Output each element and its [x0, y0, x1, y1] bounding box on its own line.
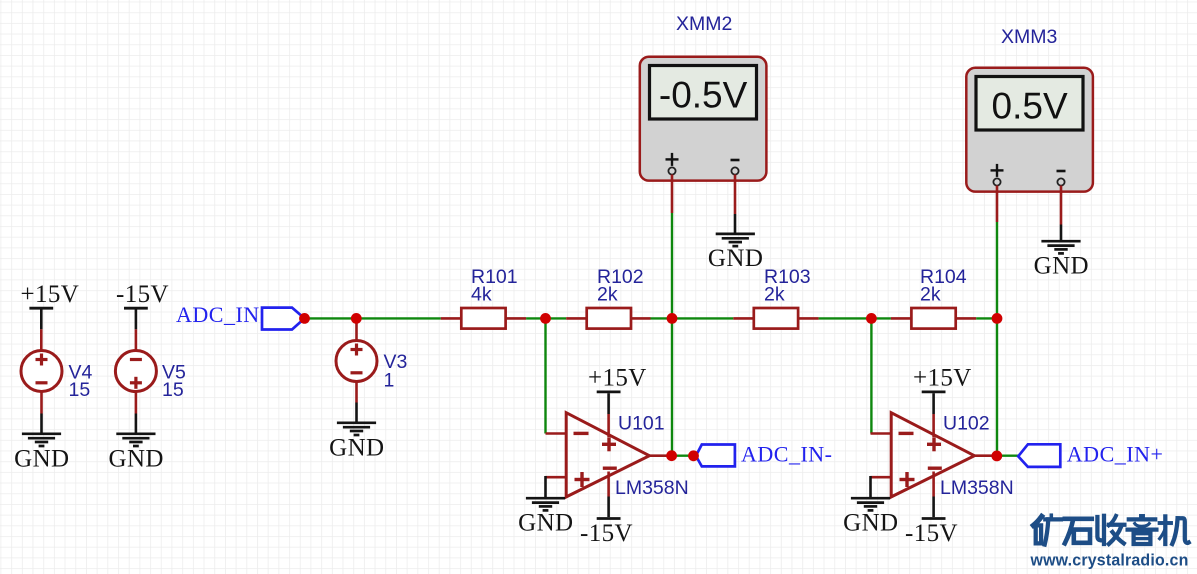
junction U102 output: [991, 451, 1002, 462]
svg-text:ADC_IN+: ADC_IN+: [1067, 442, 1164, 467]
svg-text:XMM2: XMM2: [676, 13, 732, 35]
svg-text:-15V: -15V: [580, 520, 633, 547]
junction node D: [992, 313, 1003, 324]
label R101 4k: [471, 266, 518, 306]
wire node C down to U102 inverting input: [870, 318, 872, 433]
svg-text:+15V: +15V: [21, 281, 80, 308]
resistor R102: [587, 308, 631, 329]
svg-text:GND: GND: [843, 510, 898, 537]
svg-text:-15V: -15V: [905, 520, 958, 547]
wire U102 inverting input stub: [871, 432, 892, 435]
svg-text:2k: 2k: [920, 284, 941, 306]
svg-text:15: 15: [69, 379, 91, 401]
wire R104 right lead: [956, 317, 977, 320]
svg-text:2k: 2k: [764, 284, 785, 306]
ground (XMM3): [1034, 241, 1089, 279]
net flag ADC_IN: [176, 302, 305, 330]
ground (U101): [518, 498, 573, 536]
wire node B up to XMM2 +: [671, 213, 673, 318]
svg-text:4k: 4k: [471, 284, 492, 306]
wire U101 non-inverting input to ground: [546, 476, 567, 498]
resistor R101: [461, 308, 505, 329]
junction node C: [866, 313, 877, 324]
svg-text:GND: GND: [329, 435, 384, 462]
wire U102 non-inverting input to ground: [871, 476, 892, 498]
wire U102 output to flag: [997, 455, 1018, 457]
junction ADC_IN- flag tip: [688, 450, 699, 461]
ground (V4): [14, 434, 69, 473]
svg-text:GND: GND: [14, 446, 69, 473]
wire R104 left lead: [891, 317, 912, 320]
wire U102 V+ pin: [932, 414, 935, 437]
resistor R104: [911, 308, 955, 329]
multimeter XMM2: [640, 57, 767, 181]
junction ADC_IN: [299, 313, 310, 324]
junction node A: [540, 313, 551, 324]
wire R101 to node A: [526, 317, 566, 319]
wire node D down to U102 output: [996, 318, 998, 455]
junction V3 node: [351, 313, 362, 324]
wire XMM3 + lead: [996, 186, 999, 223]
ground (V3): [329, 423, 384, 462]
svg-text:1: 1: [384, 370, 395, 392]
svg-text:XMM3: XMM3: [1001, 26, 1057, 48]
ground (V5): [109, 434, 164, 473]
watermark url www.crystalradio.cn: [1030, 551, 1189, 570]
wire XMM2 + lead: [671, 175, 674, 214]
wire R102 left lead: [566, 317, 587, 320]
label U102 LM358N: [940, 413, 1014, 500]
wire R101 right lead: [506, 317, 526, 320]
svg-text:GND: GND: [1034, 253, 1089, 280]
wire U101 output to flag: [672, 455, 694, 457]
svg-text:LM358N: LM358N: [615, 477, 689, 499]
watermark logo text: [1033, 515, 1188, 544]
power symbol -15V (U101): [580, 497, 633, 548]
op-amp U102: [891, 413, 974, 497]
op-amp U101: [566, 413, 649, 497]
svg-text:GND: GND: [109, 446, 164, 473]
junction U101 output: [666, 450, 677, 461]
wire V3 bottom lead: [355, 382, 358, 424]
power symbol +15V (V4): [21, 281, 80, 329]
voltage source V5: [115, 351, 156, 392]
svg-text:-0.5V: -0.5V: [659, 74, 748, 115]
wire R102 to node B: [651, 317, 734, 319]
multimeter XMM3: [966, 68, 1093, 192]
wire ADC_IN to V3 node to R101: [305, 317, 441, 319]
wire node A down to U101 inverting input: [544, 318, 546, 433]
wire R104 to node D: [976, 317, 997, 319]
wire node B down to U101 output: [671, 318, 673, 455]
voltage source V4: [21, 351, 62, 392]
wire R101 left lead: [441, 317, 462, 320]
junction node B: [667, 313, 678, 324]
wire R103 to node C: [819, 317, 891, 319]
svg-text:2k: 2k: [597, 284, 618, 306]
svg-text:ADC_IN: ADC_IN: [176, 302, 260, 327]
label R103 2k: [764, 266, 811, 306]
svg-text:GND: GND: [708, 245, 763, 272]
wire U101 V- pin: [607, 472, 610, 497]
wire R102 right lead: [630, 317, 651, 320]
wire U101 output lead: [649, 454, 671, 457]
net flag ADC_IN+: [1018, 442, 1163, 467]
svg-text:0.5V: 0.5V: [992, 85, 1068, 126]
power symbol +15V (U101): [588, 365, 647, 415]
wire XMM2 - lead: [734, 175, 737, 235]
svg-text:U102: U102: [943, 413, 990, 435]
net flag ADC_IN-: [696, 441, 833, 466]
label XMM2: [676, 13, 732, 35]
wire U101 V+ pin: [607, 414, 610, 437]
wire U102 V- pin: [932, 472, 935, 497]
svg-text:+15V: +15V: [588, 365, 647, 392]
svg-text:U101: U101: [618, 413, 665, 435]
wire V4 bottom lead: [40, 392, 43, 435]
wire XMM3 - lead: [1060, 186, 1063, 242]
resistor R103: [754, 308, 798, 329]
power symbol -15V (V5): [116, 281, 169, 329]
label R102 2k: [597, 266, 644, 306]
ground (XMM2): [708, 234, 763, 272]
wire U101 inverting input stub: [546, 432, 567, 435]
label V3 1: [384, 351, 408, 392]
wire V4 top lead: [40, 329, 43, 351]
svg-text:ADC_IN-: ADC_IN-: [741, 441, 833, 466]
power symbol -15V (U102): [905, 497, 958, 548]
svg-text:www.crystalradio.cn: www.crystalradio.cn: [1030, 551, 1189, 570]
label V5 15: [162, 362, 186, 402]
wire V3 top lead: [355, 318, 358, 341]
label V4 15: [69, 362, 93, 402]
wire node D up to XMM3 +: [996, 222, 998, 318]
svg-text:+15V: +15V: [913, 365, 972, 392]
svg-text:15: 15: [162, 379, 184, 401]
power symbol +15V (U102): [913, 365, 972, 415]
wire R103 right lead: [798, 317, 819, 320]
wire R103 left lead: [733, 317, 754, 320]
svg-text:LM358N: LM358N: [940, 477, 1014, 499]
wire V5 bottom lead: [135, 392, 138, 435]
voltage source V3: [336, 341, 377, 382]
wire U102 output lead: [974, 454, 996, 457]
label U101 LM358N: [615, 413, 689, 500]
ground (U102): [843, 498, 898, 536]
wire V5 top lead: [135, 329, 138, 351]
label R104 2k: [920, 266, 967, 306]
label XMM3: [1001, 26, 1057, 48]
svg-text:GND: GND: [518, 510, 573, 537]
svg-text:-15V: -15V: [116, 281, 169, 308]
